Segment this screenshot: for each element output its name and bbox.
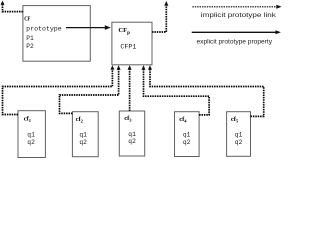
svg-text:q2: q2: [183, 139, 191, 146]
label cf1: [24, 116, 32, 123]
svg-text:explicit prototype property: explicit prototype property: [197, 39, 273, 45]
property q2 of cf1: [27, 139, 35, 146]
explicit prototype arrow CF.prototype -> CFp: [66, 25, 111, 30]
svg-text:q1: q1: [235, 132, 243, 139]
property q2 of cf4: [183, 139, 191, 146]
svg-text:q2: q2: [128, 138, 136, 145]
legend explicit arrow: [192, 30, 281, 34]
label CF: [24, 16, 30, 23]
box cf1: [18, 111, 45, 158]
box cf2: [72, 112, 98, 157]
svg-text:q1: q1: [27, 132, 35, 139]
label cf3: [124, 115, 132, 122]
implicit prototype link from CFp (up arrow at right): [152, 1, 168, 32]
box cf3: [119, 111, 144, 156]
property q2 of cf2: [79, 139, 87, 146]
svg-text:q2: q2: [27, 139, 35, 146]
implicit link cf2 -> CFp: [60, 65, 121, 113]
legend implicit arrow: [192, 5, 281, 9]
svg-text:implicit prototype link: implicit prototype link: [201, 12, 277, 19]
implicit prototype link from CF (up-left arrow): [1, 1, 23, 12]
label cf5: [231, 116, 239, 123]
property q2 of cf5: [235, 139, 243, 146]
svg-text:q2: q2: [235, 139, 243, 146]
label cf4: [179, 116, 187, 123]
legend explicit text: [197, 39, 273, 45]
svg-text:CFP1: CFP1: [120, 43, 136, 50]
svg-text:q1: q1: [128, 131, 136, 138]
legend implicit text: [201, 12, 277, 19]
property P2: [26, 43, 34, 50]
property q1 of cf4: [183, 132, 191, 139]
property q1 of cf2: [79, 132, 87, 139]
box cf4: [175, 112, 200, 157]
svg-text:P1: P1: [26, 35, 34, 42]
svg-text:q2: q2: [79, 139, 87, 146]
implicit link cf1 -> CFp: [3, 65, 115, 114]
svg-text:prototype: prototype: [26, 26, 62, 33]
implicit link cf4 -> CFp: [142, 65, 210, 115]
implicit link cf3 -> CFp: [128, 65, 132, 111]
label cf2: [76, 116, 84, 123]
box CF: [23, 6, 90, 62]
property CFP1: [120, 43, 136, 50]
label CFp: [118, 27, 130, 36]
property q1 of cf1: [27, 132, 35, 139]
property q2 of cf3: [128, 138, 136, 145]
property q1 of cf3: [128, 131, 136, 138]
svg-text:P2: P2: [26, 43, 34, 50]
property P1: [26, 35, 34, 42]
property prototype: [26, 26, 62, 33]
box cf5: [227, 112, 251, 157]
svg-text:q1: q1: [79, 132, 87, 139]
box CFp: [112, 22, 152, 65]
svg-text:q1: q1: [183, 132, 191, 139]
implicit link cf5 -> CFp: [148, 65, 264, 116]
svg-text:CF: CF: [24, 16, 30, 23]
property q1 of cf5: [235, 132, 243, 139]
